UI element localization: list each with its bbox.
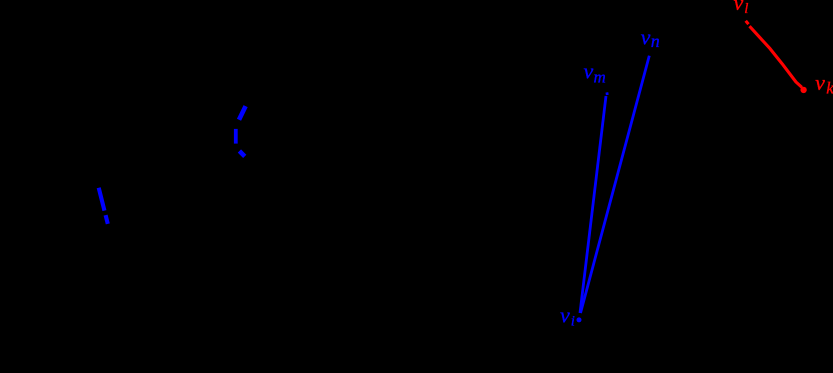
svg-text:v: v [641, 25, 651, 50]
svg-text:v: v [734, 0, 744, 15]
svg-text:v: v [584, 58, 594, 83]
svg-text:v: v [815, 70, 825, 95]
svg-text:n: n [651, 31, 660, 51]
svg-text:i: i [571, 314, 575, 330]
svg-text:v: v [560, 303, 570, 328]
svg-text:m: m [594, 68, 606, 87]
svg-text:k: k [826, 79, 833, 98]
svg-text:l: l [744, 1, 748, 17]
